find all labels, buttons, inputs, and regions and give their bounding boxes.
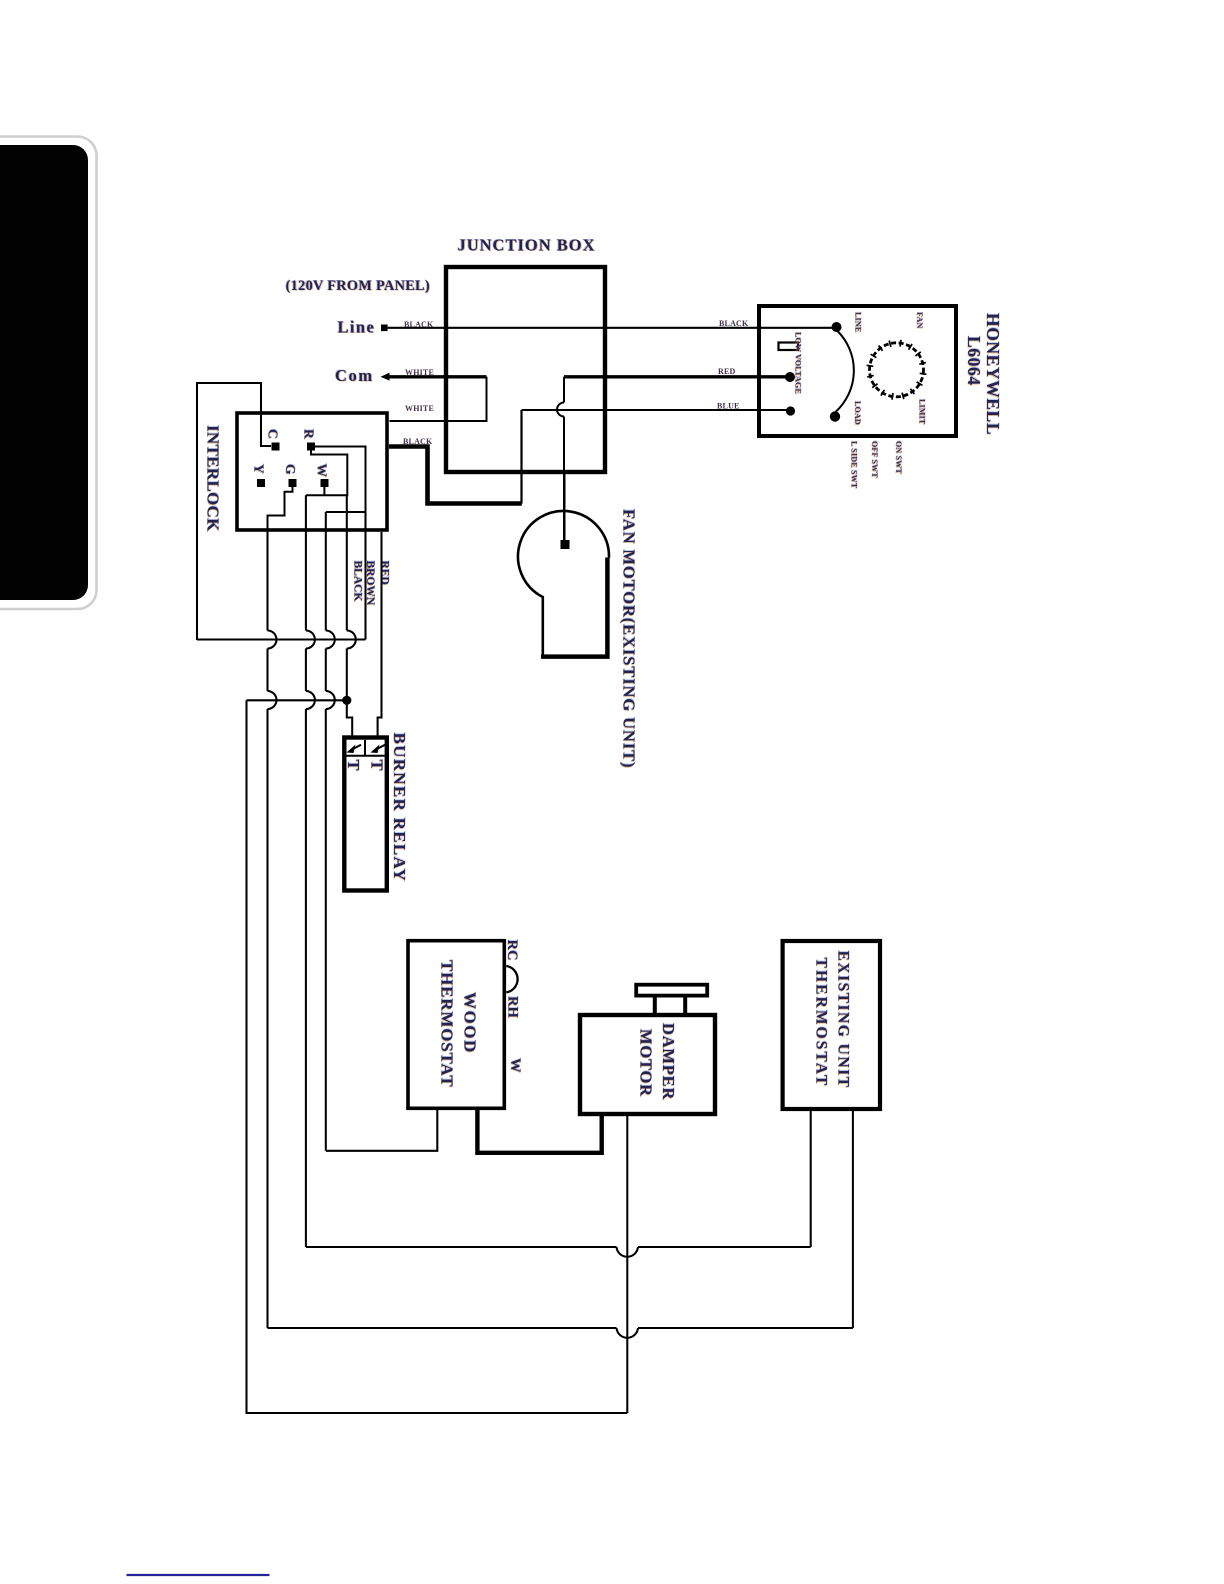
node: terminal R dot (307, 443, 315, 451)
svg-text:RED: RED (718, 367, 736, 376)
svg-text:L6064: L6064 (964, 336, 984, 386)
svg-text:BLACK: BLACK (403, 437, 433, 446)
burner relay box (344, 738, 387, 891)
wire: wood tstat left terminal to wire D (326, 1110, 438, 1151)
wire: W stub (323, 487, 325, 495)
wire G2 (to burner relay right) (378, 532, 382, 739)
svg-text:RH: RH (505, 996, 521, 1018)
svg-text:W: W (315, 464, 330, 478)
svg-text:WHITE: WHITE (405, 368, 434, 377)
wire: BLACK line (Line to Honeywell LINE) (388, 327, 833, 329)
black binder tab (left edge) (0, 137, 97, 610)
wire E (to burner relay left) with hop (347, 495, 352, 739)
horizontal 2 (to damper feed) (247, 699, 347, 701)
damper motor cap legs (655, 997, 685, 1015)
svg-text:INTERLOCK: INTERLOCK (204, 425, 223, 532)
long wire A (damper feed) (247, 700, 628, 1413)
wire: horizontal to existing tstat left terminal (with hop) (306, 1111, 811, 1247)
node: terminal C dot (272, 443, 280, 451)
node: Honeywell LOAD terminal dot (830, 411, 840, 421)
svg-text:JUNCTION BOX: JUNCTION BOX (457, 236, 595, 255)
fan motor (existing unit) symbol (518, 511, 610, 657)
svg-text:LINE: LINE (854, 312, 863, 332)
wire: damper motor right terminal long drop (626, 1116, 628, 1413)
wire: R right loop inside interlock (315, 447, 366, 513)
wire: RED from junction box to Honeywell (564, 375, 788, 378)
svg-text:RED: RED (379, 561, 391, 585)
burner relay terminal divider (347, 740, 385, 756)
svg-text:MOTOR: MOTOR (637, 1029, 656, 1097)
svg-text:OFF SWT: OFF SWT (870, 441, 879, 478)
long wire B (from G) with hops (266, 532, 268, 1328)
damper motor cap (636, 985, 707, 996)
svg-text:DAMPER: DAMPER (659, 1023, 678, 1100)
svg-text:T: T (344, 760, 363, 771)
svg-text:BLACK: BLACK (352, 561, 364, 602)
svg-text:ON SWT: ON SWT (894, 441, 903, 474)
svg-text:Line: Line (338, 318, 376, 337)
blue line (bottom of page) (127, 1574, 270, 1576)
svg-text:R: R (302, 429, 317, 439)
wire: RED vertical drop to fan motor with hop over blue (563, 377, 565, 540)
svg-text:THERMOSTAT: THERMOSTAT (438, 960, 457, 1087)
svg-text:Com: Com (335, 366, 374, 385)
wire: blue drop from junction box bottom (520, 410, 522, 504)
node: Com terminal arrow (381, 373, 390, 381)
svg-text:Y: Y (252, 464, 267, 474)
junction box (446, 267, 605, 472)
interlock outer loop (C wire) (197, 383, 271, 640)
switch arm arc inside Honeywell (836, 331, 854, 412)
node: Honeywell BLUE terminal dot (786, 406, 795, 415)
svg-text:BURNER RELAY: BURNER RELAY (390, 733, 409, 883)
interlock bottom rail (horizontal 1) (197, 638, 366, 640)
wire: WHITE com into junction box, down and back to interlock (390, 375, 487, 378)
node: Honeywell LINE terminal dot (832, 322, 842, 332)
wire: horizontal to existing tstat right terminal (with hop) (268, 1111, 853, 1328)
wire: BLUE from junction area to Honeywell (522, 409, 789, 411)
burner relay left terminal arrow (347, 745, 362, 754)
long wire D (from R loop) with hops (325, 512, 327, 1151)
wire: thick black from interlock R to blue riser (389, 447, 522, 504)
svg-text:LIMIT: LIMIT (918, 399, 927, 425)
dial with teeth inside Honeywell (867, 340, 927, 400)
svg-text:(120V FROM PANEL): (120V FROM PANEL) (286, 278, 430, 294)
svg-text:EXISTING UNIT: EXISTING UNIT (835, 951, 852, 1089)
node: Line terminal dot (381, 325, 388, 332)
svg-text:WHITE: WHITE (405, 404, 434, 413)
wire: R zigzag to W and lower exit (306, 451, 347, 496)
node: fan motor terminal (561, 540, 570, 549)
node: terminal W dot (321, 479, 329, 487)
switch rectangle symbol (779, 343, 799, 351)
svg-text:HONEYWELL: HONEYWELL (983, 313, 1003, 435)
svg-text:THERMOSTAT: THERMOSTAT (813, 958, 830, 1088)
long wire C (from R/W) with hops (305, 495, 307, 1247)
svg-text:LOW VOLTAGE: LOW VOLTAGE (794, 332, 803, 394)
wire: red drop into fan motor (564, 474, 566, 540)
node: junction dot on wire E (342, 696, 351, 705)
svg-text:LOAD: LOAD (853, 401, 862, 425)
node: terminal G dot (289, 479, 297, 487)
wire: G exit path (268, 487, 293, 532)
jumper bump RC-RH (506, 966, 517, 992)
svg-text:FAN: FAN (915, 312, 924, 328)
node: terminal Y dot (257, 479, 265, 487)
svg-text:G: G (283, 464, 298, 475)
svg-text:C: C (266, 429, 281, 439)
svg-text:L SIDE SWT: L SIDE SWT (850, 441, 859, 489)
svg-text:RC: RC (504, 940, 520, 961)
Honeywell L6064 box (759, 306, 956, 436)
svg-text:BLUE: BLUE (717, 402, 740, 411)
svg-text:FAN MOTOR(EXISTING UNIT): FAN MOTOR(EXISTING UNIT) (620, 509, 639, 768)
svg-text:T: T (368, 760, 387, 771)
svg-text:BLACK: BLACK (404, 320, 434, 329)
interlock inner box (237, 413, 387, 530)
wire F (R loop end to interlock bottom rail) (364, 512, 366, 640)
damper motor box (580, 1015, 715, 1114)
burner relay right terminal arrow (371, 745, 386, 754)
node: Honeywell RED terminal dot (785, 372, 795, 382)
svg-text:BLACK: BLACK (719, 319, 749, 328)
wire: wood tstat right terminal to damper motor (thick) (477, 1108, 601, 1153)
existing unit thermostat box (783, 941, 880, 1109)
svg-text:WOOD: WOOD (461, 992, 480, 1054)
wood thermostat box (408, 941, 504, 1109)
svg-text:W: W (507, 1058, 523, 1073)
